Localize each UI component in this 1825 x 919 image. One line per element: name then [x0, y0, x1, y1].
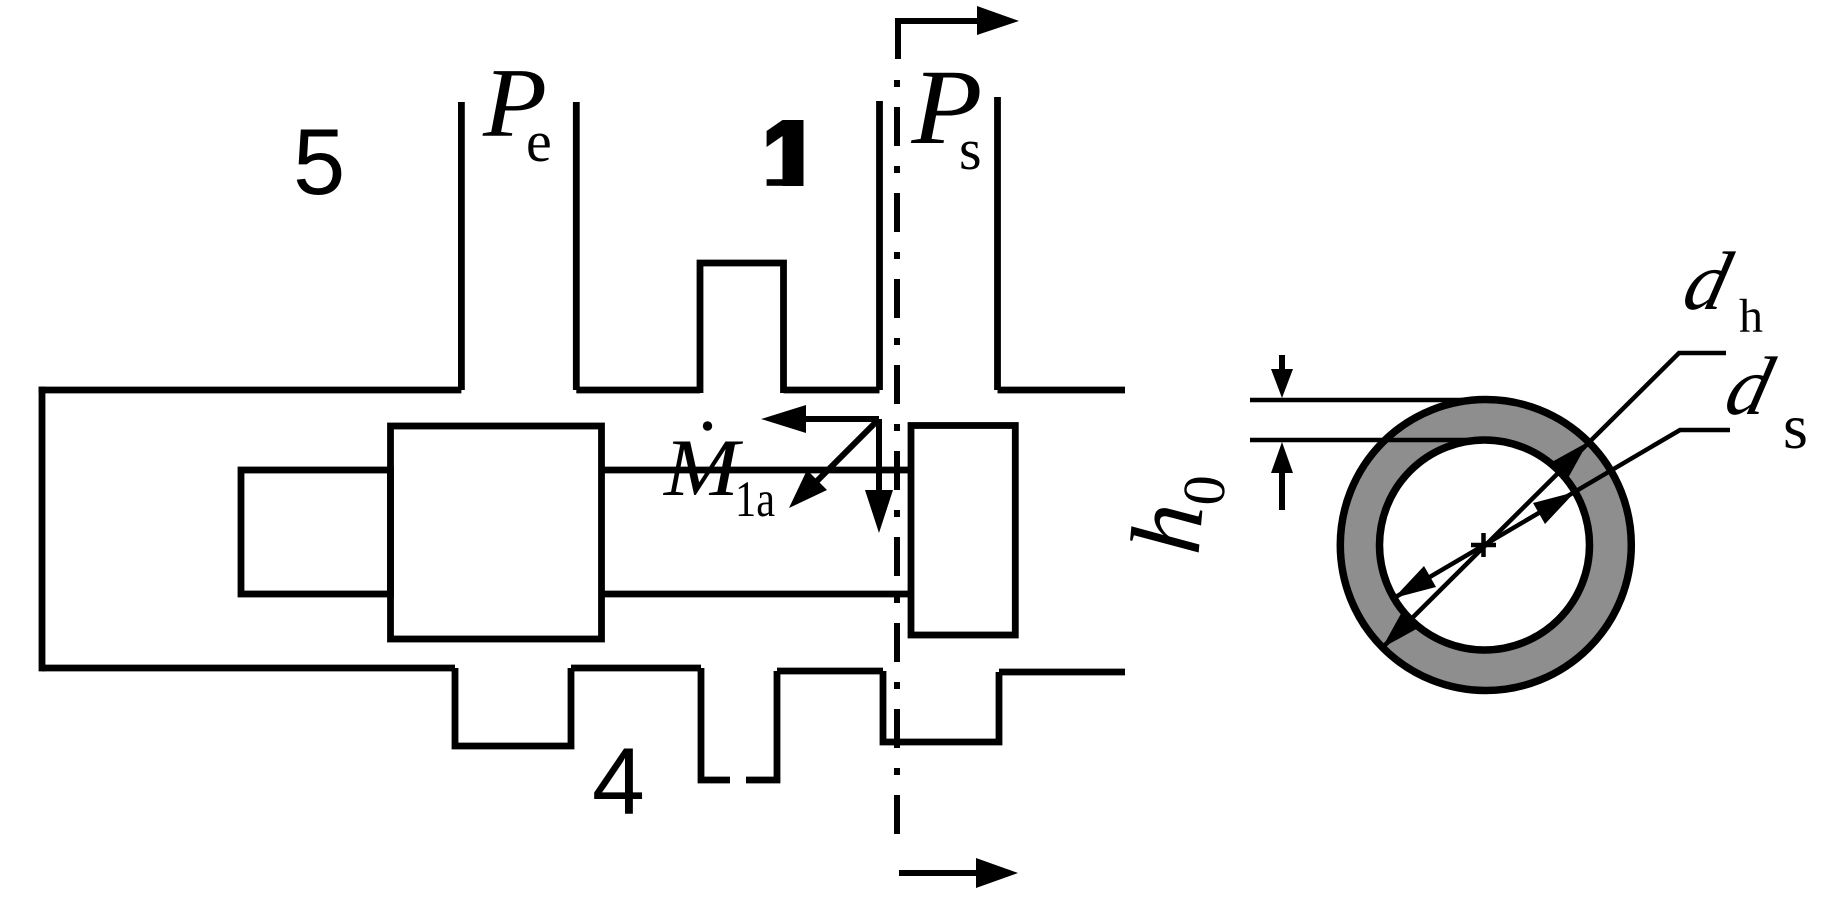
svg-text:0: 0	[1170, 473, 1238, 509]
h0 top arrow	[1279, 355, 1285, 370]
h0 upper tangent line	[1250, 398, 1488, 403]
valve body top wall left segment	[39, 387, 462, 394]
valve body left wall	[39, 387, 46, 672]
flow arrow left	[804, 416, 879, 422]
label M1a with dot	[703, 421, 712, 430]
valve body bottom wall segment	[571, 665, 701, 672]
port Ps right wall	[994, 97, 1001, 390]
valve body bottom wall segment D	[777, 668, 883, 675]
spool left stem rectangle	[241, 470, 391, 594]
svg-text:h: h	[1739, 290, 1763, 343]
spool right land rectangle	[911, 426, 1015, 636]
valve body bottom wall right segment	[999, 669, 1125, 676]
bottom port 4 notch left part	[701, 668, 730, 780]
spool right stem bottom line	[602, 591, 912, 598]
svg-text:4: 4	[592, 729, 645, 835]
flow arrow diagonal	[813, 421, 877, 485]
label h0 rotated	[1110, 468, 1239, 559]
port Pe right wall	[573, 102, 580, 390]
spool center land square	[391, 426, 602, 639]
valve body top wall segment C	[784, 387, 880, 394]
svg-text:1a: 1a	[735, 472, 775, 528]
h0 lower tangent line	[1250, 438, 1488, 443]
valve body top wall right segment	[998, 387, 1126, 394]
dh dimension line	[1381, 353, 1726, 649]
center cross	[1471, 533, 1496, 557]
label dh	[1675, 236, 1740, 328]
h0 bottom arrow	[1279, 473, 1285, 510]
centerline dash-dot	[894, 80, 900, 845]
spool right stem top line	[602, 467, 912, 474]
bottom axis arrow	[899, 870, 978, 876]
svg-text:s: s	[1783, 391, 1808, 462]
flow arrow down	[876, 419, 882, 492]
svg-text:e: e	[526, 109, 552, 174]
svg-text:M: M	[663, 422, 744, 513]
valve body bottom wall left segment	[42, 665, 455, 672]
port Ps left wall	[876, 101, 883, 390]
top axis arrow	[898, 21, 979, 59]
svg-text:h: h	[1110, 499, 1225, 558]
bottom port 4 notch right part	[746, 671, 777, 780]
top seat notch	[700, 263, 784, 393]
bottom notch 3	[883, 671, 999, 742]
ring inner circle (spool)	[1380, 440, 1590, 650]
label ds	[1717, 341, 1782, 433]
ring outer circle (hole)	[1340, 400, 1631, 691]
port Pe left wall	[458, 102, 465, 390]
ds dimension line	[1394, 430, 1730, 598]
svg-text:5: 5	[293, 109, 345, 214]
svg-text:s: s	[959, 117, 982, 182]
bottom notch 1	[455, 668, 571, 746]
label 1	[767, 120, 783, 147]
valve body top wall middle segment	[576, 387, 700, 394]
